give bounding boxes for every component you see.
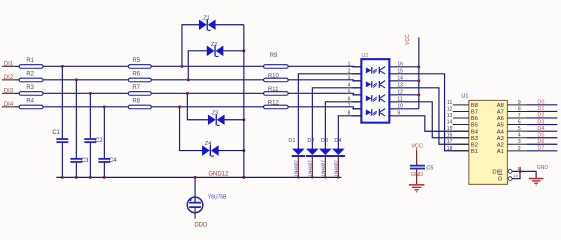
wire A3 out / net D5	[526, 133, 557, 139]
svg-text:D0: D0	[537, 100, 544, 106]
node rail col3	[89, 176, 92, 179]
svg-text:11: 11	[447, 100, 452, 106]
U2 pin 4	[348, 82, 362, 88]
node rail col2	[75, 176, 78, 179]
node row2 col2	[75, 78, 78, 81]
svg-text:Z3: Z3	[212, 110, 218, 116]
optocoupler U2	[361, 53, 389, 123]
svg-text:A7: A7	[497, 110, 504, 116]
capacitor C4	[98, 158, 117, 164]
node DIR G	[519, 170, 522, 173]
svg-text:D3: D3	[537, 119, 544, 125]
node Z3 common	[242, 118, 245, 121]
wire A2 out / net D6	[526, 139, 557, 145]
node rail D1	[297, 176, 299, 178]
wire Z2 left	[188, 51, 207, 80]
resistor R12	[264, 100, 289, 108]
wire row3 R11 to U2 pin5	[288, 93, 361, 95]
wire DIR to ground	[512, 171, 536, 178]
wire pin16 to VCC rail	[398, 66, 419, 68]
wire row1 R9 to U2 pin1	[288, 65, 361, 68]
opto channel 1	[366, 67, 385, 74]
U1 pin 13 B6	[447, 113, 478, 122]
resistor R5	[128, 58, 151, 68]
U1 pin 6 A5	[497, 120, 527, 129]
svg-text:U2: U2	[361, 53, 368, 59]
wire Z3 left	[187, 93, 208, 119]
resistor R11	[264, 87, 289, 95]
svg-text:7: 7	[518, 113, 521, 119]
svg-text:B5: B5	[471, 123, 478, 129]
svg-text:D4: D4	[334, 138, 341, 144]
svg-text:Z1: Z1	[203, 15, 209, 21]
resistor R7	[128, 85, 151, 95]
resistor R1	[19, 58, 43, 68]
wire row4 R8 to R12	[151, 106, 263, 108]
svg-text:B7: B7	[471, 110, 478, 116]
U1 pin 11 B8	[447, 100, 478, 109]
wire row4 left	[14, 106, 19, 108]
ground symbol right	[529, 179, 544, 186]
svg-text:17: 17	[447, 139, 453, 145]
node Z2 common	[242, 49, 245, 52]
U1 pin 4 A3	[497, 133, 527, 142]
node common rail	[242, 176, 245, 179]
svg-text:R1: R1	[26, 58, 34, 64]
IC U1 74HC245	[461, 93, 507, 184]
wire G join	[512, 167, 520, 179]
node rail D4	[337, 176, 339, 178]
wire A5 out / net D3	[526, 119, 557, 125]
svg-text:VCC: VCC	[411, 143, 423, 149]
U1 pin 2 A1	[497, 146, 527, 155]
port DI2	[2, 75, 15, 81]
capacitor C3	[70, 158, 89, 164]
resistor R3	[19, 85, 43, 95]
wire C2 to rail	[89, 143, 91, 178]
node rail D3	[324, 176, 326, 178]
wire cap column 1	[61, 66, 63, 138]
wire Z1 right	[215, 24, 244, 26]
svg-text:C1: C1	[52, 130, 60, 136]
wire row4 R12 to U2 pin7	[288, 107, 361, 109]
port DI4	[2, 102, 15, 108]
svg-text:A8: A8	[497, 103, 504, 109]
svg-text:D6: D6	[537, 139, 544, 145]
zener Z3	[208, 110, 225, 125]
wire row2 R2 to R6	[43, 79, 128, 81]
power VCC top	[405, 34, 419, 109]
svg-text:A2: A2	[497, 142, 504, 148]
svg-text:A5: A5	[497, 123, 504, 129]
wire zener common vertical	[243, 25, 245, 178]
svg-text:GND12: GND12	[208, 171, 229, 177]
svg-text:D3: D3	[321, 138, 328, 144]
node Z4 common	[242, 149, 245, 152]
svg-text:8: 8	[518, 106, 521, 112]
capacitor C5	[410, 165, 434, 171]
svg-text:R7: R7	[132, 85, 140, 91]
wire cap column 4	[103, 107, 105, 158]
wire GND12 rail	[56, 176, 341, 178]
svg-text:R2: R2	[26, 71, 34, 77]
resistor R6	[128, 71, 151, 81]
wire row1 R1 to R5	[43, 65, 128, 67]
wire row3 R7 to R11	[151, 92, 263, 94]
svg-text:R5: R5	[132, 58, 140, 64]
wire pin9 to B4	[398, 116, 469, 131]
wire cap column 2	[75, 80, 77, 158]
U2 pin 1	[348, 61, 362, 67]
wire A6 out / net D2	[526, 113, 557, 119]
svg-text:A6: A6	[497, 116, 504, 122]
svg-text:A4: A4	[497, 129, 505, 135]
U1 pin 8 A7	[497, 106, 527, 115]
svg-text:D4: D4	[537, 126, 544, 132]
svg-text:R8: R8	[132, 98, 140, 104]
wire U2 pin2 to D1	[298, 74, 361, 149]
wire cap column 3	[89, 93, 91, 138]
diode D3	[319, 138, 332, 178]
U1 pin 17 B2	[447, 139, 478, 148]
svg-text:U1: U1	[461, 93, 468, 99]
svg-text:R4: R4	[26, 98, 34, 104]
node VCC pin12	[417, 93, 420, 96]
U2 pin 13	[389, 82, 403, 88]
svg-text:2: 2	[348, 68, 351, 74]
zener Z4	[202, 141, 219, 156]
svg-text:5: 5	[348, 89, 351, 95]
wire Z3 right	[224, 119, 244, 121]
svg-text:18: 18	[447, 146, 453, 152]
diode D1	[288, 138, 305, 178]
svg-text:R9: R9	[270, 53, 278, 59]
wire row2 R6 to R10	[151, 79, 263, 81]
svg-text:5: 5	[518, 126, 521, 132]
opto channel 2	[366, 81, 385, 88]
svg-text:B6: B6	[471, 116, 478, 122]
svg-text:D5: D5	[537, 133, 544, 139]
wire Z2 right	[223, 50, 244, 52]
svg-text:2: 2	[518, 146, 521, 152]
svg-text:7: 7	[348, 103, 351, 109]
capacitor C2	[84, 138, 103, 144]
node Z1 row1	[180, 65, 183, 68]
wire U2 pin8 to D4	[338, 116, 361, 149]
wire pin12 to VCC rail	[398, 94, 419, 96]
power VCC decoupling	[411, 143, 423, 165]
resistor R9	[264, 53, 289, 68]
wire C5 to ground	[416, 169, 418, 184]
wire U2 pin4 to D2	[312, 88, 361, 149]
U2 pin 10	[389, 103, 403, 109]
svg-text:3: 3	[518, 139, 521, 145]
U1 pin 5 A4	[497, 126, 527, 135]
diode D4	[332, 138, 345, 178]
svg-text:D1: D1	[537, 106, 544, 112]
node Z3 row3	[186, 92, 189, 95]
opto channel 4	[366, 109, 385, 116]
node VCC pin16	[417, 65, 420, 68]
svg-text:15: 15	[447, 126, 453, 132]
wire row3 R3 to R7	[43, 92, 128, 94]
wire pin10 to VCC rail	[398, 108, 419, 110]
svg-text:4: 4	[348, 82, 351, 88]
wire Z4 right	[218, 150, 243, 152]
wire C1 to rail	[61, 143, 63, 178]
svg-text:R6: R6	[132, 71, 140, 77]
U2 pin 12	[389, 89, 403, 95]
U1 pin 18 B1	[447, 146, 478, 155]
port DI1	[2, 61, 15, 67]
diode D2	[306, 138, 319, 178]
ground symbol decoupling	[409, 185, 425, 192]
capacitor C1	[52, 130, 68, 142]
wire U2 pin6 to D3	[325, 102, 361, 149]
U2 pin 9	[389, 110, 400, 116]
U2 pin 3	[348, 75, 362, 81]
svg-text:9: 9	[518, 100, 521, 106]
U1 pin 19 G	[498, 173, 519, 183]
U1 pin 16 B3	[447, 133, 478, 142]
node rail GDT	[194, 176, 197, 179]
svg-text:D2: D2	[307, 138, 314, 144]
svg-text:D2: D2	[537, 113, 544, 119]
U1 pin 15 B4	[447, 126, 479, 135]
wire pin11 to B3	[398, 102, 469, 138]
wire row4 R4 to R8	[43, 106, 128, 108]
U2 pin 7	[348, 103, 362, 109]
U2 pin 6	[348, 96, 362, 102]
gas discharge tube	[187, 177, 227, 219]
svg-text:A3: A3	[497, 136, 504, 142]
svg-text:B8: B8	[471, 103, 478, 109]
U1 pin 12 B7	[447, 106, 478, 115]
svg-text:GND: GND	[537, 165, 549, 171]
wire Z4 left	[180, 107, 203, 151]
svg-text:D1: D1	[288, 138, 295, 144]
U2 pin 2	[348, 68, 362, 74]
wire row1 R5 to R9	[151, 65, 263, 67]
svg-text:19: 19	[513, 173, 518, 178]
svg-text:6: 6	[518, 120, 521, 126]
resistor R8	[128, 98, 151, 108]
node rail col1	[61, 176, 64, 179]
svg-text:C5: C5	[426, 165, 433, 171]
svg-text:D7: D7	[537, 146, 544, 152]
U2 pin 15	[389, 68, 403, 74]
wire A7 out / net D1	[526, 106, 557, 112]
node row3 col3	[89, 92, 92, 95]
U2 pin 5	[348, 89, 362, 95]
svg-text:B3: B3	[471, 136, 478, 142]
svg-text:A1: A1	[497, 149, 504, 155]
opto channel 3	[366, 95, 385, 102]
U2 pin 11	[389, 96, 402, 102]
svg-text:16: 16	[447, 133, 453, 139]
node Z4 row4	[178, 105, 181, 108]
svg-text:14: 14	[447, 120, 453, 126]
svg-text:12: 12	[447, 106, 453, 112]
wire row1 left	[14, 65, 19, 67]
svg-text:DDD: DDD	[194, 222, 208, 228]
svg-text:B1: B1	[471, 149, 478, 155]
U2 pin 8	[348, 110, 362, 116]
svg-text:B4: B4	[471, 129, 479, 135]
resistor R2	[19, 71, 43, 81]
port DI3	[2, 88, 15, 94]
svg-text:8: 8	[348, 110, 351, 116]
node VCC pin14	[417, 79, 420, 82]
node rail D2	[311, 176, 313, 178]
wire pin13 to B2	[398, 88, 469, 144]
svg-text:Y8U75B: Y8U75B	[208, 194, 227, 200]
wire row3 left	[14, 92, 19, 94]
wire Z1 left	[182, 25, 199, 67]
wire C4 to rail	[103, 163, 105, 178]
U1 pin 1 DIR	[492, 166, 519, 175]
wire A8 out / net D0	[526, 100, 557, 106]
svg-text:1: 1	[348, 61, 351, 67]
svg-text:G: G	[498, 177, 503, 183]
svg-text:6: 6	[348, 96, 351, 102]
node rail col4	[103, 176, 106, 179]
svg-text:3: 3	[348, 75, 351, 81]
resistor R10	[264, 73, 289, 81]
U1 pin 3 A2	[497, 139, 527, 148]
node row4 col4	[103, 105, 106, 108]
U1 pin 7 A6	[497, 113, 527, 122]
svg-text:13: 13	[447, 113, 453, 119]
U2 pin 16	[389, 61, 403, 67]
U1 pin 14 B5	[447, 120, 478, 129]
svg-text:VCC: VCC	[405, 34, 411, 45]
svg-text:4: 4	[518, 133, 521, 139]
wire pin15 to B1	[398, 74, 469, 151]
svg-text:Z2: Z2	[211, 42, 217, 48]
wire A1 out / net D7	[526, 146, 557, 152]
node row1 col1	[61, 65, 64, 68]
resistor R4	[19, 98, 43, 108]
wire row2 left	[14, 79, 19, 81]
U2 pin 14	[389, 75, 403, 81]
zener Z2	[207, 42, 224, 57]
svg-text:R3: R3	[26, 85, 34, 91]
wire C3 to rail	[75, 163, 77, 178]
U1 pin 9 A8	[497, 100, 527, 109]
zener Z1	[199, 15, 216, 30]
node Z2 row2	[187, 78, 190, 81]
svg-text:B2: B2	[471, 142, 478, 148]
wire A4 out / net D4	[526, 126, 557, 132]
wire pin14 to VCC rail	[398, 80, 419, 82]
wire row2 R10 to U2 pin3	[288, 80, 361, 81]
